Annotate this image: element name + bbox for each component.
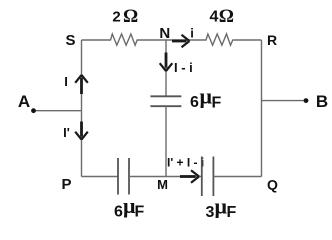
current arrow I'+I-i (right) [180,170,199,182]
wire top-left S corner to resistor R1 [82,39,109,41]
svg-text:I: I [64,74,68,89]
svg-text:Q: Q [267,177,278,193]
wire capacitor C2 to node M [129,176,202,178]
svg-text:I - i: I - i [174,60,193,75]
svg-text:F: F [135,204,145,221]
node S [65,32,75,49]
wire capacitor C3 to node Q [213,176,261,178]
wire node N down to capacitor C1 [165,40,167,96]
current arrow i [172,35,190,47]
terminal B wire and dot [262,98,309,103]
wire right branch R to Q [261,40,263,177]
svg-text:i: i [190,26,194,41]
svg-text:S: S [65,32,75,49]
wire node P to capacitor C2 [82,176,119,178]
current arrow I (up) [75,75,88,94]
node label A [18,92,30,111]
svg-text:Ω: Ω [123,6,138,27]
svg-text:I' + I - i: I' + I - i [167,156,204,170]
node P [61,176,71,193]
svg-text:P: P [61,176,71,193]
value label 4Ω [210,6,234,27]
svg-text:6: 6 [114,204,123,221]
svg-text:A: A [18,92,30,111]
svg-text:2: 2 [112,9,120,26]
wire node N to resistor R2 [166,39,204,41]
value label 2Ω [112,6,138,27]
current arrow I-i (down) [160,53,173,72]
svg-text:I': I' [63,125,70,140]
current arrow I' (down) [75,122,88,140]
wire left branch S to P [81,40,83,177]
capacitor C2 plates [118,158,129,195]
svg-text:4: 4 [210,9,219,26]
value label 6μF (C1) [190,84,222,112]
current label i [190,26,194,41]
current label I' + I - i [167,156,204,170]
current label I - i [174,60,193,75]
node label B [316,92,328,111]
svg-text:6: 6 [190,94,199,111]
resistor R2 4Ω zigzag [204,34,233,45]
terminal A wire and dot [31,108,81,113]
svg-text:M: M [157,177,168,192]
capacitor C1 plates [150,96,181,106]
svg-text:Ω: Ω [219,6,234,27]
svg-text:F: F [212,95,222,112]
svg-text:F: F [227,204,237,221]
value label 3μF (C3) [206,194,237,222]
node R [267,32,277,48]
current label I' [63,125,70,140]
wire R1 to node N [138,39,166,41]
capacitor C3 plates [202,157,214,197]
node M [157,177,168,192]
current label I [64,74,68,89]
value label 6μF (C2) [114,193,145,221]
wire R2 to node R corner [234,39,262,41]
svg-text:B: B [316,92,328,111]
resistor R1 2Ω zigzag [108,34,138,45]
svg-text:3: 3 [206,204,215,221]
node N [159,25,170,42]
svg-text:R: R [267,32,277,48]
wire capacitor C1 to node M [165,106,167,176]
node Q [267,177,278,193]
